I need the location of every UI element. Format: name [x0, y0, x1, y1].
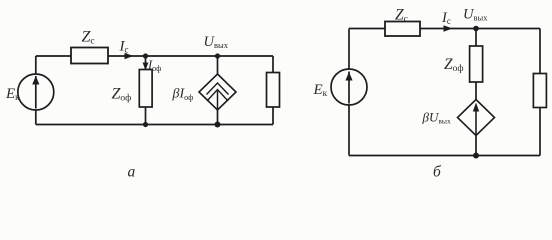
resistor Z_c (left circuit) — [71, 48, 108, 64]
wire: right circuit middle branch mid — [475, 82, 477, 100]
wire: right circuit left branch — [348, 29, 350, 156]
svg-text:Uвых: Uвых — [204, 34, 229, 50]
svg-text:Iс: Iс — [119, 39, 129, 55]
wire: left circuit diamond branch top — [217, 56, 219, 75]
svg-text:б: б — [433, 164, 442, 180]
svg-text:Iс: Iс — [441, 10, 451, 26]
svg-text:βUвых: βUвых — [422, 110, 451, 126]
svg-text:а: а — [128, 164, 136, 180]
svg-text:Eк: Eк — [313, 82, 328, 98]
svg-text:Uвых: Uвых — [463, 7, 488, 23]
node dot top middle (left circuit) — [143, 53, 148, 58]
dependent current source beta*I_of (diamond, left circuit) — [199, 74, 236, 110]
svg-text:βIоф: βIоф — [172, 87, 194, 103]
node dot top at U_vyh (left circuit) — [215, 53, 220, 58]
dependent source beta*U_vyh (diamond, right circuit) — [458, 100, 495, 136]
current arrow I_of pointing down (left circuit) — [143, 63, 149, 71]
node dot bottom middle (left circuit) — [143, 122, 148, 127]
svg-text:Zс: Zс — [395, 7, 408, 25]
resistor Z_c (right circuit) — [385, 22, 420, 37]
svg-text:Zоф: Zоф — [444, 56, 464, 74]
resistor right branch (left circuit) — [267, 73, 280, 108]
wire: right circuit bottom wire — [349, 155, 540, 157]
wire: left circuit right branch — [272, 56, 274, 125]
wire: left circuit top wire — [36, 55, 273, 57]
svg-text:Iоф: Iоф — [147, 58, 161, 73]
wire: right circuit top wire — [349, 28, 540, 30]
wire: left circuit diamond branch bottom — [217, 109, 219, 125]
wire: left circuit left branch (through source) — [35, 56, 37, 125]
wire: right circuit right branch — [539, 29, 541, 156]
resistor Z_of (left circuit) — [139, 70, 152, 108]
source E_k (left circuit) — [18, 74, 54, 110]
wire: right circuit middle branch top — [475, 29, 477, 47]
current arrow I_c (left circuit) — [125, 53, 134, 59]
wire: left circuit bottom wire — [36, 124, 273, 126]
wire: right circuit middle branch bottom — [475, 135, 477, 156]
wire: left circuit middle branch — [145, 56, 147, 125]
source E_k (right circuit) — [331, 69, 367, 105]
resistor right branch (right circuit) — [533, 74, 546, 108]
svg-text:Zоф: Zоф — [112, 86, 132, 104]
resistor Z_of (right circuit) — [470, 46, 483, 82]
current arrow I_c (right circuit) — [444, 25, 453, 31]
node dot bottom at diamond (left circuit) — [215, 122, 221, 128]
svg-text:Zс: Zс — [82, 29, 95, 47]
node dot bottom (right circuit) — [473, 153, 479, 159]
node dot top at U_vyh (right circuit) — [473, 26, 479, 32]
